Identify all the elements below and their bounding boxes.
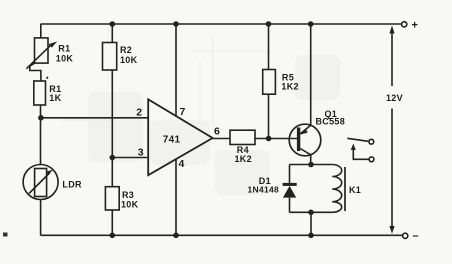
label 741 xyxy=(163,134,181,145)
scan smudge background xyxy=(88,55,340,195)
resistor R3 xyxy=(105,187,119,210)
wire: top rail to R1 pot xyxy=(40,24,42,38)
node: R4/R5/base junction xyxy=(266,136,272,142)
wire: bottom horizontal (D1/K1 bottom) xyxy=(290,211,333,213)
relay contact terminal bottom xyxy=(369,157,374,162)
label LDR xyxy=(62,179,82,189)
svg-text:10K: 10K xyxy=(121,199,139,209)
relay contact blade xyxy=(347,138,368,141)
wire: rail to R2 xyxy=(111,24,113,43)
svg-text:12V: 12V xyxy=(386,93,403,103)
pin label 2 xyxy=(136,107,142,119)
relay contact terminal top xyxy=(369,139,374,144)
node: top rail / R2 xyxy=(110,21,116,27)
svg-text:741: 741 xyxy=(163,134,181,145)
label + xyxy=(412,20,419,32)
scan speck xyxy=(3,233,8,237)
svg-text:2: 2 xyxy=(136,107,142,119)
wire: R5 to base node xyxy=(268,94,270,138)
svg-text:+: + xyxy=(412,20,419,32)
wire: top rail to Q1 emitter xyxy=(310,24,312,125)
label R5 1K2 xyxy=(281,73,298,92)
svg-text:–: – xyxy=(413,230,419,242)
wire: D1 anode down xyxy=(289,198,291,213)
wire: to D1 cathode xyxy=(289,165,291,185)
transistor Q1 BC558 xyxy=(289,124,321,156)
op-amp U1 741 xyxy=(148,99,212,175)
label Q1 BC558 xyxy=(316,109,346,127)
node: divider tap to pin 3 xyxy=(110,155,116,161)
svg-text:K1: K1 xyxy=(349,185,361,195)
wire: R4 to Q1 base xyxy=(255,138,298,140)
wire: R3 to bottom rail xyxy=(111,210,113,235)
label 12V xyxy=(386,93,403,103)
resistor R2 xyxy=(103,43,117,71)
svg-text:R1: R1 xyxy=(58,44,70,54)
diode D1 1N4148 xyxy=(283,184,297,197)
svg-text:1N4148: 1N4148 xyxy=(248,185,280,195)
node: top rail / Q1 emitter xyxy=(308,21,314,27)
node: bottom rail / relay branch xyxy=(308,233,314,239)
node: top rail / pin 7 xyxy=(173,21,179,27)
label R1 1K xyxy=(49,84,61,103)
wire: pin 7 to top rail xyxy=(175,24,177,116)
resistor R5 xyxy=(263,70,276,95)
svg-text:10K: 10K xyxy=(120,55,138,65)
node: bottom junction D1/K1 xyxy=(308,210,314,216)
node: bottom rail / pin 4 xyxy=(173,233,179,239)
node: top rail / R5 xyxy=(266,21,272,27)
pin label 6 xyxy=(214,126,220,138)
node: collector junction xyxy=(308,162,314,168)
wire: pin 4 to bottom rail xyxy=(175,159,177,235)
wire: collector node to bottom rail xyxy=(310,212,312,235)
wire: R2 to R3 column xyxy=(111,70,113,187)
pin label 4 xyxy=(179,158,185,170)
svg-text:4: 4 xyxy=(179,158,185,170)
faint scan lines xyxy=(60,35,270,125)
wire: R1 pot to R1 1K (jog) xyxy=(30,63,41,81)
svg-text:1K2: 1K2 xyxy=(281,81,298,91)
LDR xyxy=(23,165,58,200)
wire: top rail to R5 xyxy=(268,24,270,70)
node: junction R1/LDR to pin2 xyxy=(38,115,44,121)
resistor R4 xyxy=(230,130,255,144)
wire: R1 1K to LDR xyxy=(40,105,42,165)
label - xyxy=(413,230,419,242)
terminal - xyxy=(403,233,408,238)
12V supply arrow xyxy=(389,26,394,234)
svg-text:10K: 10K xyxy=(56,54,74,64)
pin label 7 xyxy=(180,106,186,118)
svg-text:R2: R2 xyxy=(120,45,132,55)
wire: pin 6 output to R4 xyxy=(213,138,230,140)
label R4 1K2 xyxy=(235,145,252,164)
label R3 10K xyxy=(121,190,139,209)
resistor R1 (1K) xyxy=(34,77,48,105)
wire: LDR to bottom rail xyxy=(40,200,42,236)
resistor R1 (10K trimmer) xyxy=(26,38,57,69)
bottom supply rail xyxy=(41,234,403,236)
wire: junction to op-amp pin 2 xyxy=(41,117,148,119)
terminal + xyxy=(402,22,407,27)
svg-text:7: 7 xyxy=(180,106,186,118)
pin label 3 xyxy=(138,147,144,159)
wire: Q1 collector down xyxy=(310,155,312,165)
label K1 xyxy=(349,185,361,195)
svg-text:LDR: LDR xyxy=(62,179,82,189)
svg-text:1K2: 1K2 xyxy=(235,154,252,164)
wire: contact bottom lead with actuate arrow xyxy=(351,144,369,160)
svg-text:1K: 1K xyxy=(49,93,61,103)
wire: collector node horizontal (D1/K1 top) xyxy=(290,164,333,166)
label R2 10K xyxy=(120,45,138,65)
svg-text:3: 3 xyxy=(138,147,144,159)
svg-text:BC558: BC558 xyxy=(316,117,346,127)
label R1 10K xyxy=(56,44,74,64)
label D1 1N4148 xyxy=(248,176,280,195)
top supply rail xyxy=(41,23,402,25)
relay coil K1 xyxy=(332,165,345,213)
svg-text:6: 6 xyxy=(214,126,220,138)
node: bottom rail / R3 xyxy=(110,233,116,239)
wire: tap to op-amp pin 3 xyxy=(112,157,148,159)
